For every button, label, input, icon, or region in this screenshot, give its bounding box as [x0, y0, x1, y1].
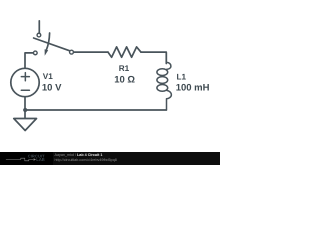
wire: switch common to resistor	[74, 51, 108, 53]
switch SW1 throw terminal (top)	[37, 33, 41, 37]
wire: resistor to top-right corner, down to inductor	[141, 52, 166, 63]
svg-text:100 mH: 100 mH	[176, 82, 210, 93]
switch SW1 lever	[34, 38, 70, 51]
switch SW1 common terminal (right)	[70, 50, 74, 54]
svg-text:10 V: 10 V	[42, 83, 62, 94]
V1 minus sign	[21, 89, 29, 91]
wire: switch top stub	[38, 21, 40, 33]
junction node dot	[23, 108, 27, 112]
wire: bottom throw to corner	[25, 53, 33, 68]
credits text	[55, 153, 220, 163]
ground symbol	[24, 110, 26, 119]
svg-text:L1: L1	[177, 72, 187, 81]
CircuitLab logo	[0, 152, 53, 165]
switch SW1 actuation arrow	[46, 33, 49, 50]
resistor R1	[108, 47, 141, 57]
V1 plus sign	[21, 73, 29, 81]
footer bar	[0, 152, 220, 165]
svg-text:R1: R1	[119, 64, 130, 73]
inductor L1 coil	[157, 53, 171, 110]
svg-text:LAB: LAB	[36, 157, 44, 162]
voltage source V1 circle	[11, 68, 39, 96]
wire: V1 bottom lead	[24, 97, 26, 110]
switch SW1 throw terminal (bottom-left)	[33, 51, 37, 55]
wire: bottom rail	[25, 109, 166, 111]
svg-text:10 Ω: 10 Ω	[114, 75, 135, 86]
svg-text:V1: V1	[43, 72, 53, 81]
